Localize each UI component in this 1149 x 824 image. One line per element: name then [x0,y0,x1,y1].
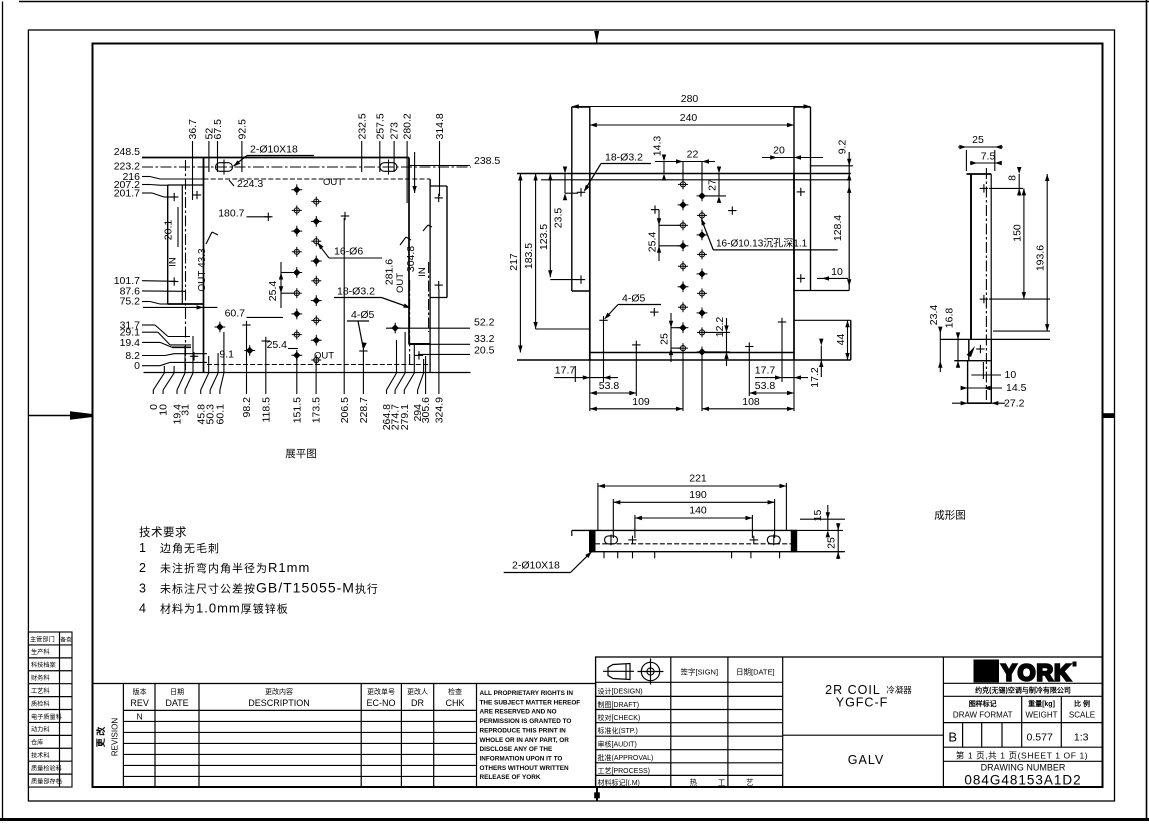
svg-text:REVISION: REVISION [111,718,120,756]
svg-text:217: 217 [508,253,520,271]
paper top edge [19,1,1149,3]
middle view dim 17.7 right [755,377,808,379]
svg-text:工艺[PROCESS): 工艺[PROCESS) [598,767,651,775]
svg-text:23.4: 23.4 [928,305,940,326]
svg-text:281.6: 281.6 [384,259,396,285]
svg-text:EC-NO: EC-NO [367,698,396,708]
svg-text:23.5: 23.5 [553,208,565,229]
svg-text:艺: 艺 [746,778,754,787]
revision table row lines [123,720,476,722]
svg-text:280: 280 [681,93,699,105]
svg-text:4-Ø5: 4-Ø5 [622,293,646,305]
svg-text:7.5: 7.5 [981,151,996,163]
svg-text:4: 4 [139,602,146,616]
middle view dim 25.4 [658,210,660,261]
svg-text:240: 240 [680,112,698,124]
svg-text:仓库: 仓库 [31,739,43,747]
svg-text:123.5: 123.5 [538,224,550,250]
svg-text:制图[DRAFT): 制图[DRAFT) [598,700,640,709]
right view dim 16.8 [957,333,959,366]
middle view dim 20 [762,157,823,159]
svg-text:17.7: 17.7 [555,365,576,377]
svg-text:279.1: 279.1 [399,404,411,430]
svg-text:OUT: OUT [314,351,334,362]
svg-text:190: 190 [689,489,707,501]
svg-text:221: 221 [689,473,707,485]
svg-text:DESCRIPTION: DESCRIPTION [248,698,310,708]
middle view dim 108 [702,408,794,410]
svg-text:25.4: 25.4 [647,232,659,253]
svg-text:约克(无锡)空调与制冷有限公司: 约克(无锡)空调与制冷有限公司 [975,685,1071,694]
middle view left tab [571,107,573,291]
svg-text:2-Ø10X18: 2-Ø10X18 [512,560,560,572]
svg-text:更改内容: 更改内容 [265,687,293,696]
svg-text:工艺科: 工艺科 [31,687,50,695]
left view hole column B [311,197,321,207]
svg-text:CHK: CHK [445,698,464,708]
middle view dim 17.7 left [554,377,618,379]
middle view dim 22 [655,161,715,163]
svg-text:20.1: 20.1 [163,220,175,241]
middle view dim 12.2 [726,318,728,366]
left view left fold dash-dot vertical [185,160,187,370]
svg-text:重量[kg]: 重量[kg] [1028,699,1055,708]
svg-text:206.5: 206.5 [339,397,351,423]
svg-text:183.5: 183.5 [523,243,535,269]
right view dim 27.2 [952,402,1005,404]
svg-text:92.5: 92.5 [237,119,249,140]
revision table verticals [122,684,124,788]
bottom view slot left [605,536,618,544]
svg-text:未注折弯内角半径为R1mm: 未注折弯内角半径为R1mm [160,560,310,575]
svg-text:20.5: 20.5 [474,344,495,356]
svg-text:98.2: 98.2 [241,397,253,418]
svg-text:27: 27 [707,179,719,191]
svg-text:冷凝器: 冷凝器 [886,685,912,695]
svg-text:第 1 页,共 1 页(SHEET 1 OF 1): 第 1 页,共 1 页(SHEET 1 OF 1) [956,750,1088,760]
middle view dim 23.5 [564,174,566,194]
svg-text:232.5: 232.5 [356,113,368,139]
left view hole column A (16-O6 / 18-O3.2 holes) [291,184,302,195]
left view left flange hole bottom [170,277,178,285]
svg-text:生产科: 生产科 [31,648,50,656]
svg-text:16.8: 16.8 [944,308,956,329]
svg-text:批准(APPROVAL): 批准(APPROVAL) [598,753,654,762]
middle view dim 17.2 [820,346,822,377]
left view right flange fold dash-dot [428,262,430,332]
bottom view slot right [767,536,780,544]
left view slot 2 [380,163,397,172]
svg-text:14.5: 14.5 [1006,382,1027,394]
bottom view dim 140 [635,517,753,519]
svg-text:18-Ø3.2: 18-Ø3.2 [605,152,643,164]
svg-text:材料标记[(.M): 材料标记[(.M) [598,778,640,787]
svg-text:日期: 日期 [170,688,184,696]
svg-text:273: 273 [389,122,401,140]
svg-text:16-Ø6: 16-Ø6 [334,246,363,258]
svg-text:ALL PROPRIETARY RIGHTS IN: ALL PROPRIETARY RIGHTS IN [480,690,574,697]
right view dim 8 [1018,174,1020,196]
left view right fold dash-dot vertical [409,280,411,364]
svg-text:0: 0 [134,360,140,372]
bottom view slot ticks [610,535,612,546]
svg-text:201.7: 201.7 [114,187,140,199]
left view slot centerline dash-dot [142,166,471,168]
svg-text:版本: 版本 [133,687,147,696]
svg-text:8: 8 [1007,175,1019,181]
svg-text:53.8: 53.8 [599,380,620,392]
right view dim 150 [1023,188,1025,299]
bottom view bottom edge [590,551,797,553]
paper bottom thick edge [0,818,1149,821]
svg-text:2: 2 [139,561,146,575]
title block middle divider [783,734,944,736]
paper right edge [1146,0,1148,820]
left view left flange top cap [168,184,204,186]
svg-text:1:3: 1:3 [1074,732,1089,744]
left view dim 304.8 arrow line [414,152,416,193]
right view dim 14.5 [962,387,1002,389]
middle view hole column B [697,191,708,202]
svg-text:B: B [948,730,957,745]
svg-text:31: 31 [180,404,192,416]
svg-text:173.5: 173.5 [311,397,323,423]
svg-text:财务科: 财务科 [31,674,50,682]
right view dim 25 [958,146,1003,148]
svg-text:YGFC-F: YGFC-F [836,696,889,710]
svg-text:IN: IN [417,267,428,277]
middle view bottom right tab [794,319,851,321]
svg-text:27.2: 27.2 [1004,398,1025,410]
YORK logo [974,660,999,682]
left view left flange bottom cap [168,303,204,305]
bottom view dim 25 [797,551,845,553]
middle view dim 240 [590,124,794,126]
centering mark top [594,31,599,44]
svg-text:20: 20 [773,145,785,157]
svg-text:224.3: 224.3 [237,178,263,190]
bottom view dim 221 [598,485,787,487]
svg-text:材料为1.0mm厚镀锌板: 材料为1.0mm厚镀锌板 [160,601,289,616]
left view left flange inner edge [181,185,183,304]
svg-text:图样标记: 图样标记 [969,699,997,708]
title block format row [943,722,1102,724]
middle view dim 44 [847,320,849,360]
projection symbol target circle [641,662,659,680]
svg-text:60.1: 60.1 [215,404,227,425]
paper left edge [2,2,4,820]
svg-text:10: 10 [1005,369,1017,381]
svg-text:60.7: 60.7 [225,308,246,320]
distribution table grid [28,632,72,787]
middle view dim 53.8 left [590,392,637,394]
bottom view left end bar [590,530,596,551]
middle view face right edge [793,174,795,361]
svg-text:324.9: 324.9 [434,397,446,423]
bottom view dim 15 [800,518,845,520]
svg-text:10: 10 [158,404,170,416]
svg-text:WHOLE OR IN ANY PART, OR: WHOLE OR IN ANY PART, OR [480,737,570,744]
title block verticals [670,657,672,787]
middle view right tab [793,107,795,291]
svg-text:GALV: GALV [848,753,884,767]
title block left row lines [596,681,783,683]
middle view dim 183.5 [535,174,537,330]
bottom view holes [628,536,636,544]
svg-text:257.5: 257.5 [374,113,386,139]
svg-text:67.5: 67.5 [212,119,224,140]
svg-text:热: 热 [690,777,698,787]
svg-text:校对[CHECK): 校对[CHECK) [598,713,641,722]
right view right edge [990,174,992,339]
svg-text:WEIGHT: WEIGHT [1026,711,1058,720]
svg-text:质量部存档: 质量部存档 [31,777,62,785]
bottom view tick marks [603,552,605,559]
middle view dim 27 [718,174,720,196]
right view foot [940,338,1050,340]
middle view dim 10 [817,277,848,279]
svg-text:更改单号: 更改单号 [367,687,395,696]
svg-text:REPRODUCE THIS PRINT IN: REPRODUCE THIS PRINT IN [480,727,567,734]
svg-text:质量检验科: 质量检验科 [31,765,62,773]
svg-text:314.8: 314.8 [434,113,446,139]
svg-text:12.2: 12.2 [714,317,726,338]
svg-text:成形图: 成形图 [934,510,966,522]
company name line [943,682,1102,684]
svg-text:9.2: 9.2 [836,140,848,155]
svg-text:25.4: 25.4 [267,339,288,351]
svg-text:INFORMATION UPON IT TO: INFORMATION UPON IT TO [480,755,563,762]
svg-text:25: 25 [659,333,671,345]
bottom view right end bar [791,530,796,551]
middle view face bottom line [590,352,794,354]
svg-text:2-Ø10X18: 2-Ø10X18 [250,144,298,156]
svg-text:OUT: OUT [395,273,406,293]
svg-text:比 例: 比 例 [1074,699,1090,708]
svg-text:280.2: 280.2 [402,113,414,139]
svg-text:140: 140 [689,505,707,517]
left view left flange hole top [170,193,178,201]
right view dim 10 [971,374,1001,376]
svg-text:193.6: 193.6 [1035,245,1047,271]
middle view dim 280 [572,106,811,108]
svg-text:技术科: 技术科 [31,752,50,760]
bottom view dim 190 [613,501,774,503]
right view top cap [967,173,992,175]
left view right flange hole top [435,194,443,202]
svg-text:工: 工 [718,778,726,787]
left view isolated hole markers [264,213,272,221]
left view right flange top cap [430,185,447,187]
middle view dim 123.5 [549,174,551,278]
svg-text:305.6: 305.6 [420,397,432,423]
svg-text:10: 10 [831,266,843,278]
svg-text:YORK: YORK [1001,660,1071,686]
left view right flange hole bottom [435,281,443,289]
left view left ordinate leader lines [142,176,150,178]
left view slot 1 [216,163,233,172]
svg-text:22: 22 [687,149,699,161]
svg-text:15: 15 [812,510,824,522]
svg-text:18-Ø3.2: 18-Ø3.2 [337,286,375,298]
title block sheet row [943,746,1102,748]
middle view bottom edge long line [517,359,851,361]
middle view right tab holes [797,188,805,196]
left view label 224.3 [229,180,234,186]
svg-text:电子质量科: 电子质量科 [31,713,62,721]
svg-text:17.2: 17.2 [809,367,821,388]
svg-text:108: 108 [742,396,760,408]
left view top fold dashed line [204,178,431,180]
svg-text:质检科: 质检科 [31,700,50,708]
svg-text:14.3: 14.3 [652,136,664,157]
svg-text:0.577: 0.577 [1027,732,1053,744]
middle view dim 53.8 right [749,392,794,394]
left view top flange left edge [203,158,205,180]
svg-text:OTHERS WITHOUT WRITTEN: OTHERS WITHOUT WRITTEN [480,765,569,772]
left view top flange right edge [408,158,410,180]
projection symbol cone [608,664,630,680]
middle view face left edge [589,174,591,361]
svg-text:228.7: 228.7 [358,397,370,423]
middle view dim 14.3 [663,162,665,174]
title block right header cells [1021,696,1023,747]
svg-text:N: N [137,712,143,722]
svg-text:25: 25 [826,537,838,549]
svg-text:SCALE: SCALE [1069,711,1095,720]
svg-text:150: 150 [1011,224,1023,242]
svg-text:25.4: 25.4 [267,281,279,302]
middle view dim 25 [670,313,672,362]
svg-text:动力科: 动力科 [31,726,50,734]
left view right flange bottom cap [430,297,447,299]
svg-text:16-Ø10.13沉孔深1.1: 16-Ø10.13沉孔深1.1 [716,237,808,250]
middle view top edge line [517,173,851,175]
svg-text:19.4: 19.4 [120,337,141,349]
svg-text:36.7: 36.7 [187,119,199,140]
svg-text:技术要求: 技术要求 [139,526,187,539]
title block outline [596,657,1103,787]
svg-text:248.5: 248.5 [114,146,140,158]
middle view second top line [541,179,851,181]
svg-text:科技档案: 科技档案 [31,661,57,669]
bottom view centerline dashed [595,543,792,545]
svg-text:DRAWING NUMBER: DRAWING NUMBER [981,762,1066,772]
svg-text:44: 44 [835,334,847,346]
svg-text:边角无毛刺: 边角无毛刺 [160,542,220,555]
right view dim 7.5 [970,162,1001,164]
svg-text:304.8: 304.8 [405,246,417,272]
svg-text:4-Ø5: 4-Ø5 [351,309,375,321]
left view bottom edge long line [144,372,471,374]
svg-text:180.7: 180.7 [218,208,244,220]
bottom view top edge [572,529,797,531]
right view left edge [970,174,972,339]
left view right flange inner edge [429,180,431,373]
inner drawing frame [93,44,1103,788]
svg-text:109: 109 [632,396,650,408]
svg-text:DR: DR [411,698,424,708]
svg-text:标准化(STP.): 标准化(STP.) [598,726,638,735]
svg-text:151.5: 151.5 [291,397,303,423]
right view dim 23.4 [939,327,941,372]
left view body left edge [203,158,205,373]
svg-text:展平图: 展平图 [285,448,317,460]
svg-text:日期[DATE]: 日期[DATE] [736,668,775,677]
svg-text:53.8: 53.8 [755,380,776,392]
right view holes [980,184,988,192]
svg-text:DRAW FORMAT: DRAW FORMAT [953,711,1013,720]
svg-text:THE SUBJECT MATTER HEREOF: THE SUBJECT MATTER HEREOF [480,699,581,706]
middle view hole column A [678,179,688,189]
left view bottom right step thick line [409,343,431,345]
left view right flange outer edge [446,186,448,298]
left view left flange outer edge [167,185,169,304]
middle view dim 109 [590,408,683,410]
svg-text:更改人: 更改人 [407,687,428,696]
svg-text:238.5: 238.5 [474,155,500,167]
middle view dim 217 [519,174,521,353]
svg-text:OUT 43.3: OUT 43.3 [197,248,208,292]
svg-text:128.4: 128.4 [832,215,844,241]
right view dim 193.6 [1046,174,1048,331]
left view dim 25.4 vertical [280,262,282,308]
revision table outline [93,684,596,788]
svg-text:OUT: OUT [323,177,343,188]
svg-text:设计[DESIGN): 设计[DESIGN) [598,687,643,696]
left view body right edge [408,158,410,345]
middle view dim 128.4 [847,186,851,193]
middle view left tab holes [577,188,585,196]
svg-text:3: 3 [139,582,146,596]
svg-text:REV: REV [130,698,149,708]
svg-text:1: 1 [139,541,146,555]
centering mark bottom [596,788,598,802]
svg-text:25: 25 [972,134,984,146]
centering mark right [1104,413,1115,418]
left view bottom fold dashed line [207,364,431,366]
left view top edge line [142,157,409,159]
svg-text:33.2: 33.2 [474,333,495,345]
svg-text:主管部门: 主管部门 [30,635,55,643]
svg-text:DISCLOSE ANY OF THE: DISCLOSE ANY OF THE [480,746,554,753]
svg-text:118.5: 118.5 [260,397,272,423]
svg-text:17.7: 17.7 [755,365,776,377]
svg-text:PERMISSION IS GRANTED TO: PERMISSION IS GRANTED TO [480,718,572,725]
revision table header bottom line [123,709,476,711]
left view rotated dim 20.1 [177,207,179,247]
svg-text:RELEASE OF YORK: RELEASE OF YORK [480,774,541,781]
svg-text:75.2: 75.2 [120,296,141,308]
middle view right outer flange [848,152,850,291]
middle view dim 9.2 [847,159,851,166]
svg-text:签字[SIGN]: 签字[SIGN] [681,667,719,677]
svg-text:084G48153A1D2: 084G48153A1D2 [964,773,1081,788]
right view centerline dash-dot [985,168,987,400]
middle view isolated holes [651,205,659,213]
svg-text:备查: 备查 [60,635,72,643]
svg-text:52.2: 52.2 [474,317,495,329]
svg-text:更 改: 更 改 [95,726,106,748]
svg-text:检查: 检查 [448,687,462,696]
centering mark left [28,415,70,417]
svg-text:9.1: 9.1 [219,349,234,361]
bottom view left stub [571,530,573,536]
svg-text:DATE: DATE [165,698,188,708]
svg-text:ARE RESERVED AND NO: ARE RESERVED AND NO [480,709,557,716]
svg-text:审核[AUDIT): 审核[AUDIT) [598,740,637,749]
svg-text:IN: IN [168,257,179,267]
